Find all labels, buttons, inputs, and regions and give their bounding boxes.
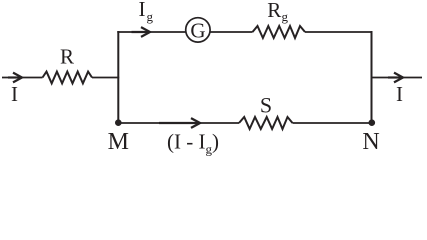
resistor R [43,72,93,84]
wire: R to node M vertical [92,77,119,79]
resistor Rg [253,26,306,38]
resistor S [239,117,293,129]
wire: Rg to right vertical [305,31,373,33]
wire: left input lead [2,77,43,79]
wire: S to node N [293,122,373,124]
svg-text:G: G [190,18,205,42]
svg-text:I: I [396,82,403,106]
svg-text:R: R [267,0,281,22]
wire: left vertical (node M riser) [117,31,119,123]
galvanometer G (circle) [186,18,210,42]
svg-text:g: g [282,9,289,24]
wire: top branch, riser to galvanometer [117,31,186,33]
arrow: input current I [8,73,22,83]
svg-text:I: I [11,82,18,106]
svg-text:(I - Ig): (I - Ig) [167,130,219,156]
svg-text:M: M [108,129,129,155]
arrow: output current I [388,73,403,83]
arrow: bottom branch current (I - Ig) [159,118,200,128]
wire: bottom branch M to S [117,122,239,124]
wire: output lead [372,77,423,79]
svg-text:g: g [147,9,154,24]
node M (junction dot) [115,119,122,126]
svg-text:R: R [60,44,74,68]
svg-text:S: S [260,93,272,118]
svg-text:N: N [362,129,379,155]
svg-text:I: I [139,0,146,21]
wire: galvanometer to Rg [210,31,253,33]
arrow: branch current Ig [132,27,151,37]
node N (junction dot) [369,119,376,126]
wire: right vertical (node N riser) [371,31,373,123]
